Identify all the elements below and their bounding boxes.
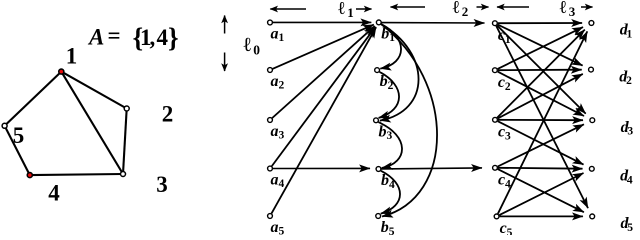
node d4 — [589, 166, 594, 171]
vertex 3 — [121, 172, 126, 177]
node label d4 — [620, 168, 633, 187]
node label d3 — [621, 119, 634, 138]
arrow c5 to d1 — [498, 31, 587, 213]
svg-text:,: , — [150, 25, 156, 50]
node label c5 — [500, 220, 513, 239]
node a4 — [268, 166, 273, 171]
svg-text:b: b — [381, 219, 389, 235]
node label b1 — [381, 25, 395, 44]
node a5 — [268, 214, 273, 219]
svg-text:3: 3 — [505, 130, 511, 142]
edge 1-3 (chord) — [61, 72, 123, 174]
svg-text:2: 2 — [279, 80, 285, 92]
svg-text:3: 3 — [569, 4, 576, 19]
node label a5 — [271, 219, 285, 238]
node label c1 — [498, 27, 511, 46]
l0 down arrow — [224, 53, 226, 72]
node label b2 — [380, 73, 394, 92]
arc b3 to b4 — [378, 122, 402, 168]
svg-text:ℓ: ℓ — [453, 0, 460, 17]
node label b4 — [381, 172, 395, 191]
node c2 — [493, 68, 498, 73]
node b5 — [376, 214, 381, 219]
svg-text:1: 1 — [66, 44, 78, 69]
l3 left arrow — [497, 6, 529, 8]
svg-text:4: 4 — [157, 25, 169, 50]
arrow c3 to d1 — [497, 30, 585, 118]
title A = {1,4} — [87, 23, 179, 53]
arrow c1 to d2 — [498, 25, 583, 66]
svg-text:5: 5 — [389, 226, 395, 235]
arrow c1 to d5 — [496, 26, 588, 208]
arc b2 to b3 — [379, 72, 399, 118]
arrow a2 to b1 — [273, 25, 374, 69]
arrow c5 to d4 — [499, 173, 583, 215]
arrow b4 to c4 (row line) — [381, 168, 482, 169]
svg-text:=: = — [108, 23, 121, 48]
node label c2 — [498, 74, 511, 93]
node c3 — [493, 117, 498, 122]
node b2 — [375, 68, 380, 73]
svg-text:5: 5 — [13, 123, 25, 148]
node label a1 — [271, 25, 285, 44]
arrow c2 to d2 — [498, 69, 582, 72]
node d2 — [589, 67, 594, 72]
arrow c5 to d5 — [500, 215, 583, 217]
node label d5 — [621, 215, 634, 234]
arrow c4 to d4 — [498, 167, 583, 170]
arrow c3 to d2 — [498, 74, 583, 119]
node label a2 — [271, 73, 285, 92]
node a1 — [268, 20, 273, 25]
node b3 — [374, 118, 379, 123]
svg-text:2: 2 — [505, 81, 511, 93]
node label a3 — [271, 123, 285, 142]
node c5 — [494, 214, 499, 219]
svg-text:0: 0 — [253, 43, 260, 58]
node b1 — [376, 20, 381, 25]
l1 left arrow — [270, 8, 306, 10]
label l0 (vertical spacing) — [244, 34, 261, 58]
label l3 — [560, 0, 576, 19]
arrow c1 to d1 — [498, 22, 582, 24]
arc b1 to b5 — [381, 24, 437, 216]
edge 5-1 — [5, 72, 62, 126]
node c4 — [493, 165, 498, 170]
arrow c1 to d3 — [497, 25, 586, 113]
node a2 — [268, 68, 273, 73]
vertex 2 — [124, 106, 129, 111]
l1 right arrow — [356, 8, 372, 10]
vertex 1 (in A, red) — [58, 68, 65, 75]
svg-text:5: 5 — [279, 226, 285, 235]
node label c4 — [498, 172, 511, 191]
edge 4-5 — [5, 126, 30, 175]
svg-text:a: a — [271, 171, 279, 188]
node d1 — [589, 21, 594, 26]
svg-text:3: 3 — [156, 172, 168, 197]
edge 3-4 — [30, 174, 123, 175]
edge 2-3 — [123, 109, 127, 175]
node label d1 — [620, 22, 633, 41]
svg-text:a: a — [271, 219, 279, 235]
svg-text:ℓ: ℓ — [560, 0, 567, 17]
svg-text:ℓ: ℓ — [338, 0, 345, 18]
svg-text:a: a — [271, 73, 279, 90]
svg-text:A: A — [87, 24, 104, 49]
svg-text:5: 5 — [507, 227, 513, 235]
svg-text:3: 3 — [387, 130, 393, 142]
edge 1-2 — [61, 72, 126, 109]
node b4 — [376, 167, 381, 172]
node label a4 — [271, 171, 285, 190]
l0 up arrow — [224, 16, 226, 34]
svg-text:1: 1 — [347, 5, 354, 20]
svg-text:ℓ: ℓ — [244, 34, 252, 56]
arrow c2 to d3 — [498, 72, 584, 116]
node d5 — [590, 214, 595, 219]
node d3 — [590, 118, 595, 123]
svg-text:4: 4 — [48, 181, 60, 206]
arrow a4 to b4 (row line) — [273, 167, 370, 169]
svg-text:1: 1 — [279, 32, 285, 44]
vertex 4 (in A, red) — [27, 172, 34, 179]
svg-text:}: } — [168, 23, 179, 53]
node c1 — [493, 21, 498, 26]
svg-text:2: 2 — [162, 102, 174, 127]
arc b1 to b2 — [380, 24, 401, 68]
label l1 — [338, 0, 354, 20]
svg-text:3: 3 — [279, 130, 285, 142]
arrow c4 to d3 — [498, 124, 584, 166]
node label c3 — [498, 124, 511, 143]
arrow c4 to d5 — [498, 169, 584, 212]
node a3 — [268, 118, 273, 123]
svg-text:5: 5 — [627, 222, 633, 234]
svg-text:3: 3 — [627, 126, 633, 138]
svg-text:a: a — [271, 123, 279, 140]
arrow a1 to b1 (row line) — [273, 21, 372, 23]
svg-text:a: a — [271, 25, 279, 42]
arc b1 to b3 — [380, 24, 419, 120]
arrow a3 to b1 — [272, 26, 375, 118]
svg-text:4: 4 — [627, 174, 633, 186]
label l2 — [453, 0, 469, 19]
arrow a5 to b1 — [272, 27, 377, 213]
vertex 5 — [2, 123, 7, 128]
arc b4 to b5 — [381, 171, 400, 214]
svg-text:1: 1 — [627, 29, 633, 41]
l3 right arrow — [581, 6, 593, 8]
svg-text:2: 2 — [462, 4, 469, 19]
svg-text:2: 2 — [626, 75, 632, 87]
l2 left arrow — [391, 6, 426, 8]
arrow c3 to d4 — [498, 121, 584, 164]
node label b5 — [381, 219, 395, 238]
arrow c3 to d3 — [498, 119, 583, 121]
arrow b1 to c1 (row line) — [381, 22, 484, 24]
arrow a4 to b1 — [272, 27, 376, 166]
node label d2 — [619, 68, 632, 87]
node label b3 — [379, 123, 393, 142]
svg-text:4: 4 — [279, 178, 285, 190]
l2 right arrow — [477, 6, 489, 8]
arrow c2 to d1 — [498, 27, 583, 69]
